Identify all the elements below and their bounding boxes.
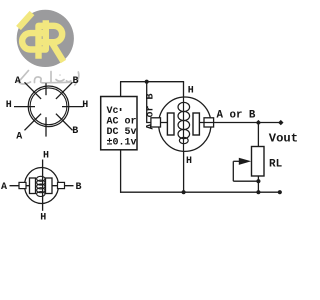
wire node to RL xyxy=(257,123,259,147)
electrode left xyxy=(30,178,36,194)
logo xyxy=(17,10,74,67)
pin feedthrough left xyxy=(19,182,26,188)
wiper arrow line xyxy=(233,160,242,162)
wire to sensor H top xyxy=(183,82,185,98)
lead B wire xyxy=(52,185,74,187)
heater center post wire xyxy=(42,160,44,211)
wiper bottom wire xyxy=(233,180,258,182)
svg-text:H: H xyxy=(6,100,12,111)
svg-text:RL: RL xyxy=(269,159,283,171)
pin feedthrough right xyxy=(58,182,65,188)
heater post wire xyxy=(183,98,185,152)
electrode left xyxy=(167,113,174,135)
bottom terminal node xyxy=(278,190,282,194)
sensor symbol body circle xyxy=(25,168,59,204)
svg-text:Vout: Vout xyxy=(269,132,298,146)
wire RL bottom xyxy=(257,176,259,192)
pin B bottom-right lead xyxy=(56,114,73,131)
svg-text:H: H xyxy=(186,156,192,167)
wire bottom rail xyxy=(120,191,280,193)
node Vout terminal xyxy=(278,120,283,125)
svg-text:A: A xyxy=(16,132,22,143)
svg-text:A: A xyxy=(15,76,21,87)
junction H bottom node xyxy=(182,190,186,194)
junction RL bottom node xyxy=(256,190,260,194)
watermark xyxy=(19,71,79,86)
wire sensor H bottom xyxy=(183,151,185,192)
svg-text:A: A xyxy=(1,182,7,193)
svg-text:H: H xyxy=(40,213,46,224)
svg-text:H: H xyxy=(43,151,49,162)
pin A top-left lead xyxy=(25,82,42,99)
sensor top-view outer circle xyxy=(28,86,69,127)
wire left branch vertical xyxy=(146,82,148,123)
svg-text:±0.1v: ±0.1v xyxy=(107,138,137,149)
junction wiper node xyxy=(256,179,260,183)
svg-text:B: B xyxy=(72,76,78,87)
svg-text:H: H xyxy=(82,100,88,111)
electrode right xyxy=(193,113,199,135)
svg-text:H: H xyxy=(188,86,194,97)
lead A wire xyxy=(10,185,30,187)
pin feedthrough left xyxy=(151,118,161,127)
svg-text:AC or: AC or xyxy=(107,116,137,127)
svg-text:B: B xyxy=(75,182,81,193)
node Vout junction xyxy=(256,120,261,125)
electrode right xyxy=(46,178,53,194)
svg-text:DC 5v: DC 5v xyxy=(107,127,137,138)
pin feedthrough right xyxy=(204,118,214,127)
pin H right lead xyxy=(62,106,83,108)
sensor top-view inner circle xyxy=(30,88,67,125)
wire top horizontal xyxy=(120,81,184,83)
wire to sensor A electrode xyxy=(147,122,168,124)
power supply box Vc xyxy=(101,97,137,150)
bottom vertical pin lead xyxy=(45,117,47,136)
gas sensor body circle xyxy=(159,97,211,151)
heater coil xyxy=(178,102,190,143)
heater coil xyxy=(37,176,45,196)
svg-text:A or B: A or B xyxy=(217,110,256,122)
wire sensor B to node xyxy=(199,122,280,124)
pin B top-right lead xyxy=(56,82,73,99)
top vertical pin lead xyxy=(45,83,47,95)
wiper down wire xyxy=(232,161,234,181)
pin H left lead xyxy=(14,106,35,108)
wire box bottom xyxy=(120,150,122,193)
svg-text:B: B xyxy=(72,126,78,137)
pin A bottom-left lead xyxy=(25,114,42,131)
wiper arrowhead xyxy=(239,158,251,165)
wire box top xyxy=(120,82,122,97)
resistor RL body xyxy=(252,147,265,177)
junction node xyxy=(145,80,149,84)
